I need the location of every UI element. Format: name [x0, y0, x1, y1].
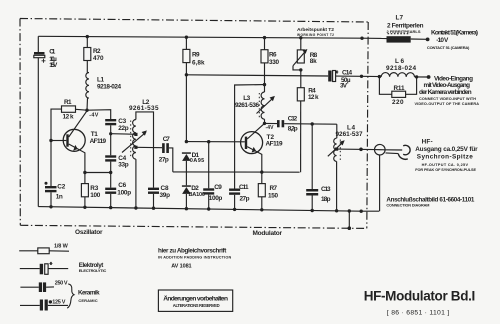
svg-text:9261-535: 9261-535	[129, 105, 159, 112]
label R1 value	[63, 99, 74, 121]
wire ground stub to border	[348, 211, 350, 228]
node L6/R11 left	[378, 75, 381, 78]
svg-text:27p: 27p	[159, 157, 169, 164]
svg-text:0A95: 0A95	[190, 158, 205, 164]
label C1 value	[49, 49, 58, 70]
feed-through capacitor (chassis)	[375, 144, 386, 211]
capacitor C3	[105, 119, 116, 155]
label R11 value	[392, 85, 405, 106]
label working point T2	[297, 27, 334, 37]
wire modulator bias rail (C7/R4/emitter T2)	[173, 171, 300, 173]
wire branch to L2 tap	[111, 133, 136, 136]
svg-text:220: 220	[392, 99, 404, 106]
svg-text:1n: 1n	[56, 193, 63, 200]
wire RF output	[337, 148, 375, 151]
svg-text:IN ADDITION PADDING INSTRUCTIO: IN ADDITION PADDING INSTRUCTION	[158, 256, 231, 260]
svg-text:15V: 15V	[49, 62, 58, 69]
label D1 value	[190, 152, 205, 164]
svg-text:Ausgang ca.0,25V für: Ausgang ca.0,25V für	[415, 146, 478, 153]
svg-text:L6: L6	[395, 58, 404, 65]
svg-text:R6: R6	[269, 52, 277, 59]
diode D1 0A95	[182, 152, 191, 185]
resistor R1	[51, 106, 87, 141]
node C4/C6 junction	[109, 171, 112, 174]
svg-text:C2: C2	[57, 183, 65, 190]
inductor L6	[381, 73, 414, 77]
svg-text:Synchron-Spitze: Synchron-Spitze	[417, 153, 473, 160]
label L4 value	[336, 125, 363, 139]
node C9 top	[207, 140, 210, 143]
svg-text:R7: R7	[270, 185, 278, 192]
label L6 value	[386, 58, 416, 72]
node R8 wiper / R4 top	[299, 68, 302, 71]
svg-text:CONTACT 51 (CAMERA): CONTACT 51 (CAMERA)	[427, 45, 470, 50]
inductor L3 with core	[257, 85, 275, 124]
node R2 top rail	[86, 35, 89, 38]
label R7 value	[268, 185, 278, 199]
label T2	[266, 134, 283, 148]
node video input terminal	[427, 75, 431, 79]
wire L2 tap2 to C7	[136, 146, 162, 148]
svg-text:C13: C13	[321, 186, 331, 193]
legend resistor symbol 1/8W	[19, 248, 69, 254]
svg-text:-4V: -4V	[89, 112, 98, 118]
label R6 value	[269, 52, 279, 67]
svg-text:R3: R3	[90, 185, 98, 192]
svg-text:12 k: 12 k	[308, 94, 319, 101]
svg-text:WORKING POINT T2: WORKING POINT T2	[297, 33, 334, 37]
svg-text:L1: L1	[97, 76, 104, 83]
inductor L7 (2 ferrite beads)	[387, 34, 411, 43]
connector RF socket	[385, 145, 410, 159]
legend ceramic brace	[67, 284, 74, 308]
svg-text:330: 330	[269, 59, 279, 66]
label C9 value	[209, 184, 223, 202]
label C3 value	[118, 118, 129, 132]
svg-text:3V: 3V	[340, 83, 348, 90]
svg-text:250 V: 250 V	[55, 281, 68, 287]
wire T1 base	[51, 140, 66, 142]
svg-text:12 k: 12 k	[63, 114, 74, 121]
transistor T1 AF119	[63, 111, 87, 173]
resistor R9	[183, 36, 190, 75]
label C12 value	[288, 115, 298, 132]
label RF output annotation	[415, 138, 478, 172]
svg-text:C11: C11	[239, 184, 249, 191]
label video input annotation	[415, 75, 480, 106]
node T2 collector	[263, 122, 266, 125]
label legend Keramik	[78, 289, 100, 303]
label C14 value	[340, 69, 352, 89]
svg-text:125 V: 125 V	[52, 299, 65, 305]
svg-text:9261-537: 9261-537	[336, 131, 363, 138]
label L2 value	[129, 99, 159, 112]
svg-text:Keramik: Keramik	[78, 289, 100, 296]
node T1 emitter	[83, 171, 86, 174]
label L1 value	[97, 76, 121, 90]
capacitor C4	[105, 155, 116, 172]
capacitor C8	[148, 188, 159, 209]
svg-text:470: 470	[93, 55, 104, 62]
capacitor C1	[34, 36, 46, 206]
svg-text:22p: 22p	[118, 125, 129, 132]
svg-text:27p: 27p	[240, 195, 250, 202]
svg-text:C9: C9	[214, 184, 222, 191]
svg-text:1/8 W: 1/8 W	[54, 243, 69, 249]
node RF output inside border	[359, 148, 363, 152]
diode D2 BA100	[182, 185, 191, 208]
svg-text:ALTERATIONS RESERVED: ALTERATIONS RESERVED	[173, 303, 220, 308]
capacitor C7	[162, 143, 173, 172]
svg-text:VIDEO-OUTPUT OF THE CAMERA: VIDEO-OUTPUT OF THE CAMERA	[415, 102, 480, 106]
svg-text:9261-536: 9261-536	[235, 102, 259, 109]
node video line at border	[360, 75, 363, 78]
svg-text:6,8k: 6,8k	[192, 60, 205, 67]
label title HF-Modulator Bd.I	[364, 288, 476, 316]
svg-text:8,2p: 8,2p	[288, 126, 298, 133]
BORDER	[20, 19, 368, 23]
svg-text:8k: 8k	[310, 58, 317, 65]
node T1 base junction	[49, 139, 52, 142]
ground rail junction dots	[49, 205, 363, 213]
svg-text:hier zu Abgleichvorschrift: hier zu Abgleichvorschrift	[158, 248, 227, 255]
node T2 emitter	[260, 170, 263, 173]
svg-text:C1: C1	[49, 49, 55, 56]
label L7 value	[387, 14, 424, 33]
resistor R7	[258, 172, 265, 210]
label D2 value	[189, 185, 206, 198]
svg-text:18p: 18p	[321, 196, 331, 203]
svg-text:C8: C8	[161, 185, 169, 192]
node L6/R11 right	[415, 75, 418, 78]
label C4 value	[118, 155, 129, 169]
svg-text:39p: 39p	[160, 192, 171, 199]
svg-text:ELECTROLYTIC: ELECTROLYTIC	[79, 268, 107, 273]
svg-text:100p: 100p	[117, 190, 131, 197]
label C13 value	[321, 186, 331, 203]
wire video terminal	[415, 76, 429, 78]
resistor R4	[297, 70, 304, 172]
wire T2 base	[186, 141, 244, 143]
label R3 value	[90, 185, 100, 199]
wire D1 column upper	[185, 75, 187, 142]
svg-text:C6: C6	[118, 182, 126, 189]
svg-text:Änderungen vorbehalten: Änderungen vorbehalten	[163, 294, 228, 302]
wire emitter to C4/C6 node	[85, 172, 111, 174]
svg-text:BA100: BA100	[189, 192, 206, 198]
label connection diagram note	[386, 197, 474, 208]
svg-text:Oszillator: Oszillator	[75, 229, 103, 236]
svg-text:-10 V: -10 V	[436, 37, 449, 44]
legend ceramic capacitor 250V symbol	[20, 282, 54, 292]
box Aenderungen vorbehalten	[158, 290, 232, 311]
label R8 value	[310, 52, 318, 65]
svg-text:-4V: -4V	[266, 125, 275, 131]
wire node B to C11 column	[235, 85, 265, 189]
transistor T2 AF119	[241, 123, 265, 171]
svg-text:150: 150	[268, 192, 278, 199]
inductor L4 with core	[328, 124, 345, 211]
capacitor C14 (electrolytic)	[328, 71, 361, 82]
svg-text:Modulator: Modulator	[253, 230, 283, 237]
svg-text:9218-024: 9218-024	[386, 65, 416, 72]
svg-text:CONNECT VIDEO-INPUT WITH: CONNECT VIDEO-INPUT WITH	[419, 97, 476, 101]
inductor L1	[86, 73, 89, 111]
svg-text:[ 86 · 6851 · 1101 ]: [ 86 · 6851 · 1101 ]	[387, 310, 449, 317]
svg-text:Kontakt 51(Kamera): Kontakt 51(Kamera)	[431, 30, 478, 37]
node Kontakt 51 terminal	[426, 38, 430, 42]
svg-text:AF119: AF119	[90, 138, 107, 145]
label R4 value	[308, 88, 319, 101]
resistor R6	[261, 36, 268, 85]
label C2 value	[56, 183, 66, 200]
label C11 value	[239, 184, 250, 203]
node ground at border	[348, 226, 352, 230]
svg-text:C12: C12	[288, 115, 298, 122]
svg-text:L7: L7	[396, 14, 404, 21]
wire video line	[362, 75, 382, 77]
svg-text:HF-Modulator Bd.I: HF-Modulator Bd.I	[364, 288, 476, 303]
svg-text:D2: D2	[191, 185, 199, 192]
node C3/C4 to L2 tap branch	[109, 132, 112, 135]
wire -4V node to C3	[87, 110, 111, 119]
label L3 value	[235, 95, 259, 109]
svg-text:100: 100	[90, 192, 100, 199]
capacitor C11	[229, 189, 240, 210]
legend electrolytic capacitor symbol	[20, 262, 68, 274]
svg-text:R1: R1	[64, 99, 72, 106]
resistor R2	[84, 37, 91, 73]
capacitor C13	[306, 122, 318, 210]
svg-text:9218-024: 9218-024	[97, 83, 121, 90]
label C8 value	[160, 185, 171, 199]
resistor R8 (adjustable, working point)	[293, 36, 307, 70]
label adjustment instruction note	[158, 248, 231, 270]
capacitor C6	[105, 173, 116, 208]
svg-text:100p: 100p	[209, 195, 223, 202]
svg-text:2 FERRITPEARLS: 2 FERRITPEARLS	[387, 29, 421, 34]
svg-text:33p: 33p	[118, 162, 129, 169]
wire A (R9 to C14)	[186, 75, 328, 76]
svg-text:C14: C14	[342, 69, 352, 76]
inductor L2 with core	[122, 112, 154, 208]
label alterations reserved box	[163, 294, 228, 308]
node R9 bottom / wire A junction	[185, 73, 188, 76]
wire to Kontakt 51	[411, 38, 427, 40]
label legend Elektrolyt	[79, 262, 107, 273]
label C6 value	[117, 182, 131, 197]
node B (R6/L3/C11)	[263, 83, 266, 86]
label T1	[90, 131, 107, 145]
svg-text:CONNECTION DIAGRAM: CONNECTION DIAGRAM	[386, 203, 429, 207]
svg-text:R9: R9	[192, 52, 200, 59]
wire -10V rail extension	[362, 37, 387, 39]
svg-text:T1: T1	[91, 131, 98, 138]
label R9 value	[192, 52, 205, 67]
svg-text:R11: R11	[394, 85, 405, 92]
svg-text:HF-: HF-	[422, 138, 433, 145]
label R2 value	[93, 48, 104, 62]
resistor R11	[379, 77, 416, 98]
svg-text:HF-OUTPUT CA. 0,25V: HF-OUTPUT CA. 0,25V	[422, 163, 469, 167]
capacitor C12	[265, 120, 337, 127]
svg-text:C7: C7	[163, 136, 170, 143]
capacitor C2	[45, 141, 57, 207]
svg-text:CERAMIC: CERAMIC	[78, 298, 97, 303]
wire bottom ground rail	[38, 207, 379, 212]
svg-text:AF119: AF119	[266, 141, 283, 148]
legend ceramic capacitor 125V symbol	[20, 300, 68, 311]
resistor R3	[81, 173, 88, 208]
capacitor C9	[203, 142, 214, 209]
svg-text:der Kamera verbinden: der Kamera verbinden	[419, 89, 472, 96]
label C7 value	[159, 136, 170, 164]
svg-text:AV 1081: AV 1081	[171, 264, 191, 270]
label Kontakt 51 terminal	[427, 30, 478, 50]
svg-text:FOR PEAK OF SYNCHRON-PULSE: FOR PEAK OF SYNCHRON-PULSE	[415, 168, 476, 172]
wire top supply rail -10V	[38, 36, 362, 38]
node -4V (T1 collector junction)	[85, 109, 88, 112]
node -10V at border	[360, 37, 363, 40]
node base wire left	[185, 140, 188, 143]
